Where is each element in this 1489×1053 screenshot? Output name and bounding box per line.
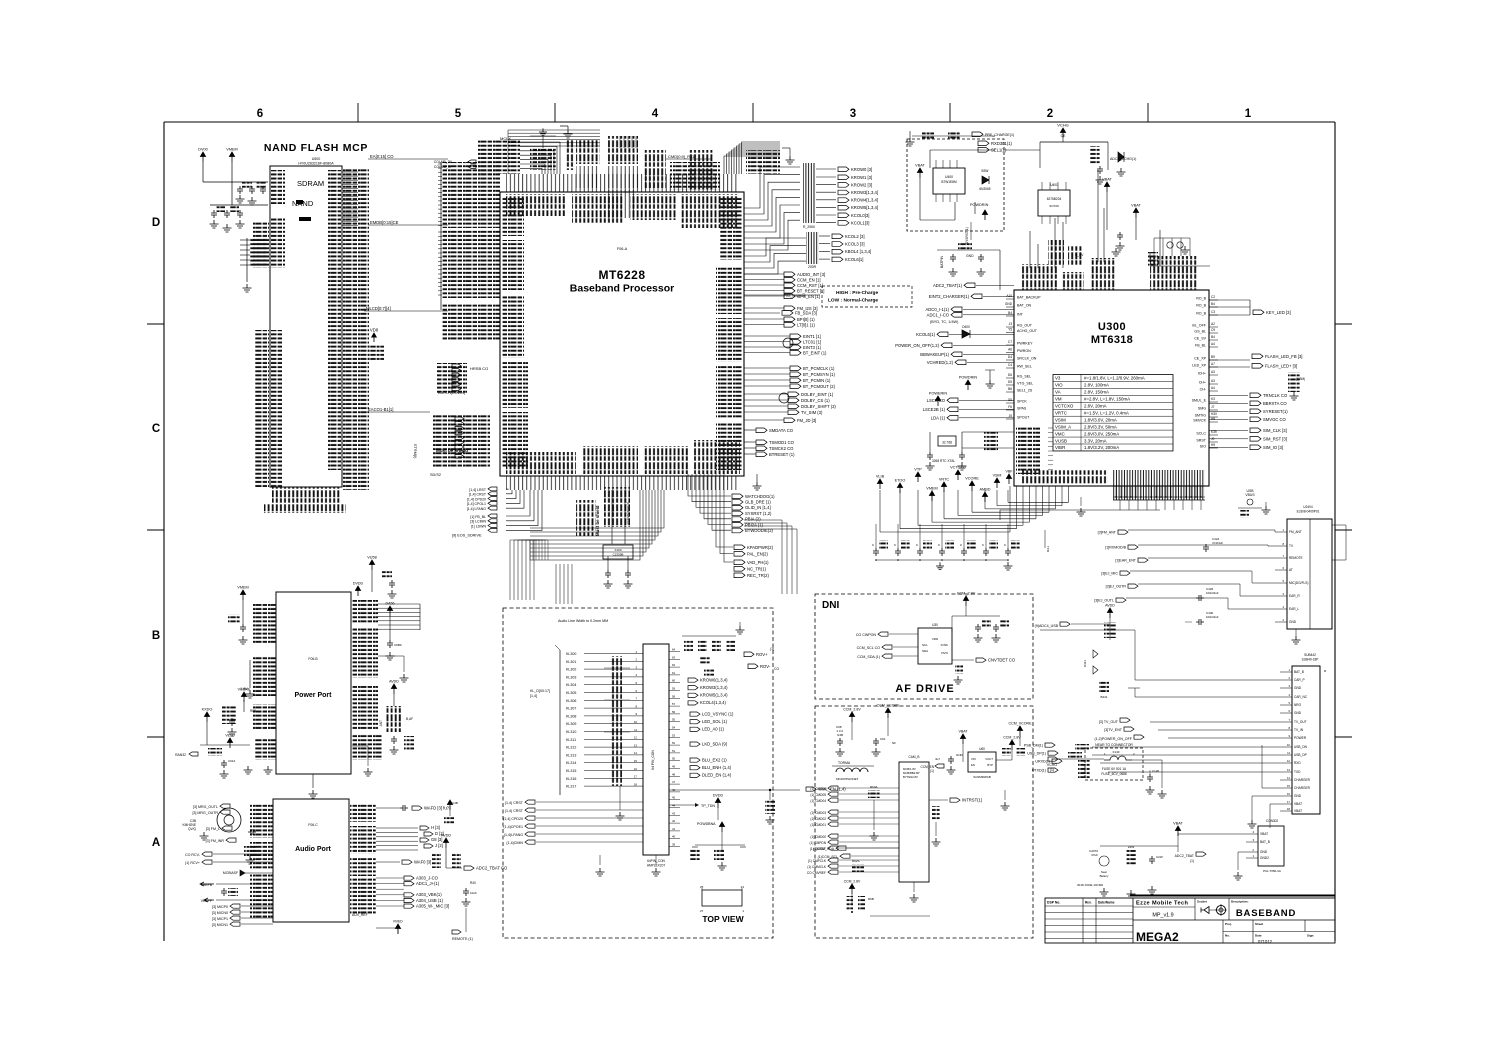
earphone wire harness and callouts (1094, 530, 1275, 609)
LED diodes cluster right of charger (1148, 230, 1210, 266)
TP_TDN test point (669, 794, 723, 821)
VBAT arrow in charger box (917, 168, 922, 178)
svg-text:U300: U300 (1098, 321, 1126, 333)
svg-text:TV_OUT: TV_OUT (1294, 720, 1307, 724)
svg-text:CH-: CH- (1200, 388, 1207, 392)
svg-text:RG_OUT: RG_OUT (1017, 324, 1033, 328)
AVDD arrow right of J700 (432, 834, 461, 869)
USB ESD protection cluster (1035, 604, 1116, 700)
svg-text:BYP: BYP (987, 763, 993, 767)
svg-text:VTG_SEL: VTG_SEL (1017, 382, 1033, 386)
svg-text:DOLBY_CS (1): DOLBY_CS (1) (801, 398, 830, 403)
svg-text:2.8V/3.3V, 50mA: 2.8V/3.3V, 50mA (1084, 424, 1117, 429)
svg-text:Socket: Socket (1197, 900, 1207, 904)
svg-text:5: 5 (1282, 579, 1284, 583)
svg-text:TV_SIM (3): TV_SIM (3) (801, 410, 823, 415)
callout AUDIO_INT [3] (744, 272, 825, 277)
svg-text:AUX_REF: AUX_REF (352, 913, 368, 917)
connector J700 Audio Port block (273, 799, 349, 922)
svg-text:C9: C9 (1211, 328, 1215, 332)
callout KROW0 [3] (816, 167, 872, 172)
svg-text:CO RCV-: CO RCV- (185, 853, 201, 857)
svg-text:(1) RCV+: (1) RCV+ (185, 861, 200, 865)
svg-text:TORMA: TORMA (838, 761, 851, 765)
svg-text:C7: C7 (1008, 340, 1012, 344)
svg-text:C3: C3 (1211, 310, 1215, 314)
aux ADC callouts right of J700 (376, 875, 449, 908)
callouts RCV- RCV+ (185, 852, 273, 865)
svg-text:U400: U400 (945, 175, 953, 179)
svg-text:LSCE2B (1): LSCE2B (1) (923, 407, 946, 412)
svg-text:CE: CE (1061, 134, 1066, 138)
svg-text:RG_SEL: RG_SEL (1017, 375, 1031, 379)
svg-text:A3: A3 (1211, 379, 1215, 383)
BT_BYP WAFD network right of J700 (376, 800, 458, 824)
VCORE 1.8V cluster (222, 687, 256, 736)
svg-text:4u7: 4u7 (935, 757, 940, 761)
svg-text:24: 24 (741, 885, 745, 889)
svg-text:Baseband Processor: Baseband Processor (570, 283, 674, 295)
svg-text:SCL: SCL (922, 643, 928, 647)
svg-text:VA: VA (1055, 390, 1061, 395)
J700 right pin labels (350, 804, 376, 914)
grid row labels (152, 217, 160, 849)
callout SMVGC CO (1209, 417, 1287, 422)
svg-text:R62S: R62S (852, 859, 860, 863)
svg-text:49: 49 (672, 765, 676, 769)
svg-text:GLB_DRE (1): GLB_DRE (1) (745, 500, 771, 505)
svg-text:48: 48 (672, 772, 676, 776)
svg-text:(1): (1) (770, 647, 774, 651)
svg-text:B4: B4 (1211, 302, 1215, 306)
svg-text:MCLK: MCLK (500, 136, 511, 141)
svg-text:13: 13 (634, 743, 638, 747)
svg-text:B9: B9 (1211, 355, 1215, 359)
svg-text:GND: GND (1294, 711, 1302, 715)
svg-text:11: 11 (634, 728, 637, 732)
svg-text:VBAT: VBAT (1294, 809, 1302, 813)
svg-text:[3] MRG_OUTR: [3] MRG_OUTR (192, 811, 218, 815)
crystal X100 cluster below U100 (603, 490, 633, 588)
battery input filter cluster (1077, 845, 1246, 898)
AUX_REF RVED (352, 913, 403, 934)
callout KROW3[1,3,4] (816, 190, 878, 195)
grounds below J600 (309, 746, 373, 798)
svg-text:AVDD: AVDD (1105, 604, 1115, 608)
svg-text:WAF0 [3]: WAF0 [3] (414, 859, 431, 864)
svg-text:SIM_IO [3]: SIM_IO [3] (1263, 445, 1283, 450)
POWDRIN arrow and ground (959, 370, 995, 390)
svg-text:3: 3 (1288, 684, 1290, 688)
svg-text:ADC3_VCHG(1): ADC3_VCHG(1) (1110, 157, 1136, 161)
svg-text:GND: GND (1294, 686, 1302, 690)
ground right of J600 mid (378, 656, 409, 682)
svg-text:A303_J-CO: A303_J-CO (416, 875, 439, 880)
svg-text:CCM_2.8V: CCM_2.8V (957, 592, 976, 596)
svg-text:DVDD: DVDD (713, 794, 724, 798)
POWDRIN label in charger box (970, 203, 989, 220)
svg-text:DLED_EN (1,4): DLED_EN (1,4) (702, 773, 732, 778)
svg-text:VOUT: VOUT (985, 757, 993, 761)
svg-text:KROW0(1,3,4): KROW0(1,3,4) (700, 677, 728, 682)
svg-text:2.8V, 150mA: 2.8V, 150mA (1084, 390, 1109, 395)
svg-text:Sheet: Sheet (1255, 922, 1263, 926)
svg-text:1: 1 (1282, 528, 1284, 532)
svg-text:1: 1 (1245, 108, 1252, 120)
svg-text:USB_DP: USB_DP (1294, 753, 1307, 757)
IC U100 MT6228 Baseband Processor (500, 192, 744, 476)
svg-text:CCM_2.8V: CCM_2.8V (844, 880, 861, 884)
svg-text:BT_RESET [1]: BT_RESET [1] (797, 288, 824, 293)
svg-text:KL317: KL317 (566, 785, 576, 789)
callout TSMOD1 CO (744, 440, 795, 445)
svg-text:CE_SV: CE_SV (1194, 337, 1206, 341)
svg-text:2: 2 (1047, 108, 1053, 120)
svg-text:VBAT: VBAT (958, 730, 968, 734)
callout LSCE2B (1) (923, 407, 1014, 412)
svg-text:RAN32: RAN32 (175, 753, 186, 757)
svg-text:59: 59 (672, 687, 676, 691)
svg-text:POWDRIN: POWDRIN (970, 203, 989, 207)
svg-text:VBAT: VBAT (1102, 178, 1112, 182)
svg-text:A: A (152, 837, 160, 849)
svg-text:A3: A3 (1211, 370, 1215, 374)
callout BT_RESET [1] (744, 288, 824, 293)
keypad staircase wires U100 to KROW resistors (744, 148, 800, 250)
svg-text:HY0U283216F-8080A: HY0U283216F-8080A (298, 162, 334, 166)
svg-text:Proj.: Proj. (1225, 922, 1232, 926)
svg-text:TSMOD1 CO: TSMOD1 CO (769, 440, 795, 445)
svg-text:LKD_SDA (9): LKD_SDA (9) (702, 741, 728, 746)
wires right of J600 upper (378, 604, 420, 630)
svg-text:6276B204: 6276B204 (1047, 197, 1062, 201)
callout CCM_RST [1] (744, 283, 823, 288)
svg-text:KL315: KL315 (566, 769, 576, 773)
CON600 inner vertical resistor banks (604, 656, 630, 786)
svg-text:17: 17 (1287, 800, 1291, 804)
svg-text:D4: D4 (1008, 355, 1012, 359)
svg-text:R_2060: R_2060 (803, 225, 815, 229)
CON600 right pin numbers (669, 648, 680, 847)
svg-text:BT_PCMCLK (1): BT_PCMCLK (1) (803, 366, 835, 371)
svg-text:ETRM(I): ETRM(I) (413, 444, 417, 459)
resistor array R_KCOL (744, 232, 819, 274)
callouts MIC inputs (212, 904, 273, 927)
svg-text:EN: EN (971, 763, 975, 767)
svg-text:LTC01 [1]: LTC01 [1] (803, 339, 821, 344)
svg-text:NF: NF (892, 741, 896, 745)
svg-text:BASEBAND: BASEBAND (1236, 908, 1296, 919)
svg-text:[3] LCIMN: [3] LCIMN (470, 520, 486, 524)
svg-text:U30: U30 (932, 623, 938, 627)
callout KCOL0[3] (816, 213, 869, 218)
svg-text:(1) CMPCLK: (1) CMPCLK (808, 859, 827, 863)
svg-text:WAFD [3] fu?: WAFD [3] fu? (424, 805, 450, 810)
callout SYRESET(1) (1209, 409, 1288, 414)
fuse dashed box NEAR TO CONNECTOR (1085, 743, 1143, 780)
svg-text:KCOL3 [3]: KCOL3 [3] (845, 242, 865, 247)
svg-text:F06-C: F06-C (308, 823, 318, 827)
camera LDO circuit (921, 722, 1033, 811)
svg-text:USB_DN: USB_DN (1294, 745, 1308, 749)
svg-text:(1)CCM_SCL: (1)CCM_SCL (818, 855, 838, 859)
callout KROW5[1,3,4] (816, 205, 878, 210)
svg-text:27: 27 (700, 909, 704, 913)
svg-text:4: 4 (1252, 830, 1254, 834)
decoupling capacitor row below U300 (872, 524, 1050, 570)
svg-text:VIBR: VIBR (1055, 445, 1065, 450)
svg-text:TPR: TPR (1046, 546, 1050, 553)
svg-text:AF DRIVE: AF DRIVE (895, 683, 954, 695)
resistor array R_KROW (803, 163, 816, 229)
svg-text:VBUS: VBUS (1245, 493, 1255, 497)
svg-text:COLMB_3P: COLMB_3P (434, 165, 453, 169)
svg-text:62: 62 (672, 663, 676, 667)
callout WML_EN far right (669, 786, 846, 824)
top wire runs above U100 (508, 130, 636, 174)
svg-text:BPI[0] (1): BPI[0] (1) (797, 317, 815, 322)
callout SIM_CLK [3] (1209, 428, 1287, 433)
svg-text:INT: INT (1017, 313, 1024, 317)
svg-text:GND: GND (1289, 620, 1297, 624)
svg-text:VSIM_A: VSIM_A (1055, 424, 1071, 429)
svg-text:Description:: Description: (1231, 900, 1249, 904)
svg-text:VDD: VDD (932, 637, 939, 641)
svg-text:POWDBNA: POWDBNA (697, 822, 716, 826)
svg-text:LSCK CO: LSCK CO (927, 398, 946, 403)
VU58 arrow above J600 (367, 556, 396, 599)
svg-text:CH+: CH+ (1199, 381, 1206, 385)
svg-text:2.8V, 20mA: 2.8V, 20mA (1084, 404, 1107, 409)
svg-text:5: 5 (455, 108, 462, 120)
svg-text:A4: A4 (1211, 386, 1215, 390)
svg-text:EINT1 [1]: EINT1 [1] (803, 334, 821, 339)
IC U300 MT6318 power management (1014, 290, 1209, 486)
svg-text:B441: B441 (1100, 695, 1107, 699)
svg-text:SRST: SRST (1196, 439, 1206, 443)
svg-text:C145: C145 (1152, 769, 1160, 773)
callout ADC1_I-CO (927, 312, 1014, 317)
svg-text:VUSB: VUSB (1055, 438, 1067, 443)
svg-text:EAR_R: EAR_R (1289, 594, 1300, 598)
svg-text:U500: U500 (312, 157, 321, 161)
MICBIAS diamond (223, 870, 273, 876)
svg-text:[1] LDWN: [1] LDWN (471, 524, 487, 528)
svg-text:44: 44 (672, 804, 676, 808)
svg-text:BATPIN: BATPIN (940, 255, 944, 268)
svg-text:CCM_SDA (1): CCM_SDA (1) (857, 655, 880, 659)
svg-text:EINT2_CHARGER(1): EINT2_CHARGER(1) (929, 294, 970, 299)
resistors on charger input (906, 131, 996, 146)
svg-text:KROW5(1,3,4): KROW5(1,3,4) (700, 693, 728, 698)
svg-text:Audio Port: Audio Port (295, 846, 331, 853)
svg-text:Rev.: Rev. (1085, 901, 1092, 905)
svg-text:SEL1_2S: SEL1_2S (1017, 389, 1033, 393)
callout VCHRED(1,2) (927, 360, 1014, 365)
CON600 left pin rows KL300-KL317 (530, 645, 643, 795)
svg-text:2: 2 (635, 658, 637, 662)
svg-text:54: 54 (672, 726, 676, 730)
svg-text:DVDD: DVDD (353, 582, 364, 586)
svg-text:SMG: SMG (1198, 407, 1206, 411)
callout BTRESET (1) (744, 452, 795, 457)
svg-text:Date/Name: Date/Name (1098, 901, 1115, 905)
svg-text:63: 63 (672, 655, 676, 659)
svg-text:BLU_EX2 (1): BLU_EX2 (1) (702, 757, 727, 762)
callout BBRXTA CO (1209, 401, 1287, 406)
U300 bottom comb junction dots (1077, 486, 1206, 516)
svg-text:[3]EJ_OUTL: [3]EJ_OUTL (1094, 599, 1114, 603)
svg-text:C6X: C6X (740, 845, 746, 849)
svg-text:VREFP: VREFP (201, 899, 213, 903)
REMOTE callout (452, 908, 473, 941)
svg-text:GS_BL: GS_BL (1194, 330, 1206, 334)
svg-text:(1) CMD04: (1) CMD04 (810, 799, 826, 803)
camera INTRST callout (929, 797, 983, 846)
resistor bank RN102 top of U100 (608, 136, 666, 188)
earphone series capacitors (1185, 537, 1301, 644)
svg-text:VCHG: VCHG (1047, 763, 1058, 767)
svg-text:2: 2 (1133, 752, 1135, 756)
svg-text:LT[0]1 (1): LT[0]1 (1) (797, 322, 815, 327)
svg-text:KL305: KL305 (566, 691, 576, 695)
callout EINT1 [1] (744, 334, 821, 339)
svg-text:KL304: KL304 (566, 683, 576, 687)
svg-text:VD8: VD8 (370, 328, 379, 333)
callout BBWAKEUP(1) (920, 352, 1014, 357)
svg-text:CO: CO (774, 667, 779, 671)
svg-text:1: 1 (1252, 854, 1254, 858)
svg-text:KL301: KL301 (566, 660, 576, 664)
svg-text:COLMB_3N: COLMB_3N (434, 160, 453, 164)
svg-text:USB_DP(1): USB_DP(1) (1027, 752, 1046, 756)
svg-text:KCOL1[3]: KCOL1[3] (851, 220, 869, 225)
callout BT_PCMSYN (1) (744, 372, 835, 377)
grounds left of J600 (246, 660, 255, 698)
BPC WAF0 wire (376, 859, 431, 864)
svg-text:PRE_CHARGE(1): PRE_CHARGE(1) (985, 133, 1014, 137)
callout LSCK CO (927, 398, 1014, 403)
CON600 bottom-left callouts (503, 800, 643, 845)
svg-text:KL_D[00:17]: KL_D[00:17] (530, 689, 550, 693)
svg-text:[1,4] CRST: [1,4] CRST (469, 493, 487, 497)
svg-text:RXD: RXD (1294, 761, 1301, 765)
svg-text:VMEM: VMEM (237, 586, 248, 590)
ADC2_TBAT callout far right (446, 865, 508, 906)
callout RX2301 SEL1 (978, 141, 1013, 153)
callout LTC01 [1] (744, 339, 821, 344)
svg-text:[3] FM_L: [3] FM_L (206, 827, 220, 831)
svg-text:A2: A2 (1211, 322, 1215, 326)
svg-text:#=1.5V, L=1.2V, 0.4mA: #=1.5V, L=1.2V, 0.4mA (1084, 410, 1129, 415)
charger dashed box (907, 139, 1004, 231)
svg-text:KROW4[1,3,4]: KROW4[1,3,4] (851, 198, 878, 203)
svg-text:1: 1 (635, 650, 637, 654)
svg-text:[1,4] CPD20: [1,4] CPD20 (503, 817, 523, 821)
CON600 right callout rows keypad (688, 677, 728, 705)
svg-text:VAD_PH(1): VAD_PH(1) (747, 560, 769, 565)
svg-text:3: 3 (850, 108, 856, 120)
svg-text:DNI: DNI (822, 600, 839, 611)
svg-text:(NBM): (NBM) (1296, 377, 1305, 381)
IC U302 AF driver (918, 623, 952, 664)
svg-text:Battery: Battery (1100, 874, 1109, 878)
svg-text:VTP: VTP (914, 468, 922, 472)
IC U400 charger (933, 160, 965, 202)
svg-text:[1]RXMOD/B: [1]RXMOD/B (1105, 546, 1126, 550)
svg-text:CAM_B: CAM_B (909, 755, 920, 759)
svg-text:6: 6 (1282, 566, 1284, 570)
svg-text:BT_EINT (1): BT_EINT (1) (803, 350, 827, 355)
svg-text:EATCH(DOWN): EATCH(DOWN) (438, 391, 466, 395)
svg-text:VU58: VU58 (367, 556, 377, 560)
svg-text:SPAS: SPAS (1017, 407, 1027, 411)
svg-text:DOLBY_EINT (1): DOLBY_EINT (1) (801, 392, 834, 397)
svg-text:SMVCK: SMVCK (1193, 419, 1206, 423)
sheet border frame (147, 103, 1352, 941)
svg-text:CCM_SCL CO: CCM_SCL CO (857, 646, 881, 650)
svg-text:[1] BBRAMACAP: [1] BBRAMACAP (626, 502, 630, 525)
U300 voltage table (1053, 375, 1173, 451)
U100 right pin band (716, 196, 742, 470)
svg-text:R_PV: R_PV (1075, 253, 1084, 257)
svg-text:PWRKEY: PWRKEY (1017, 342, 1033, 346)
svg-text:(1) CMD02: (1) CMD02 (810, 817, 826, 821)
callout PRE_CHARGE(1) (972, 132, 1014, 137)
svg-text:Date: Date (1255, 934, 1262, 938)
svg-text:VCHRED(1,2): VCHRED(1,2) (927, 360, 954, 365)
svg-text:REMOTE (1): REMOTE (1) (452, 937, 473, 941)
CON600 right callout rows backlight (690, 757, 732, 777)
wires charger to U300 top (965, 150, 1104, 268)
CAM bus labels top-right of U100 (666, 154, 720, 190)
svg-text:1: 1 (742, 909, 744, 913)
resistor bank RN101 top of U100 (576, 140, 600, 188)
svg-text:SPOUT: SPOUT (1017, 416, 1030, 420)
svg-text:J [2]: J [2] (435, 843, 443, 848)
svg-text:SIM_RST [3]: SIM_RST [3] (1263, 436, 1287, 441)
diode D401 charger (979, 169, 990, 191)
svg-text:BL_OFF: BL_OFF (1192, 324, 1206, 328)
resistor stack left of U500 (240, 238, 268, 292)
svg-text:2.8V, 100mA: 2.8V, 100mA (1084, 383, 1109, 388)
capacitor cluster C500 DV00 VMEM (198, 148, 268, 233)
svg-text:TV: TV (1289, 544, 1294, 548)
svg-text:D: D (152, 217, 160, 229)
svg-text:ADC0_I-1(1): ADC0_I-1(1) (925, 307, 949, 312)
svg-text:LED_XP: LED_XP (1192, 364, 1206, 368)
svg-text:KCOL0[3]: KCOL0[3] (851, 213, 869, 218)
svg-text:(1) CMD06: (1) CMD06 (810, 787, 826, 791)
connector J600 Power Port block (276, 592, 351, 774)
bottom-left callout stack of U100 (452, 487, 542, 538)
svg-text:(1) CMD00: (1) CMD00 (810, 835, 826, 839)
svg-text:CAR_P: CAR_P (1294, 678, 1305, 682)
svg-text:100n02uF: 100n02uF (1206, 615, 1219, 619)
svg-text:SYRESET(1): SYRESET(1) (1263, 409, 1288, 414)
svg-text:60: 60 (672, 679, 676, 683)
svg-text:EJ308-0409P01: EJ308-0409P01 (1297, 510, 1320, 514)
EINT pullup circle (779, 338, 793, 403)
svg-text:RW_SEL: RW_SEL (1017, 365, 1032, 369)
svg-text:U60: U60 (979, 747, 985, 751)
svg-text:J7: J7 (1211, 405, 1215, 409)
camera socket coil (832, 761, 874, 781)
callout ADC2_TBAT(1) (933, 283, 1014, 288)
svg-text:POWDRIN: POWDRIN (959, 376, 978, 380)
svg-text:10uF: 10uF (470, 891, 477, 895)
antenna matching cluster (1238, 489, 1271, 518)
